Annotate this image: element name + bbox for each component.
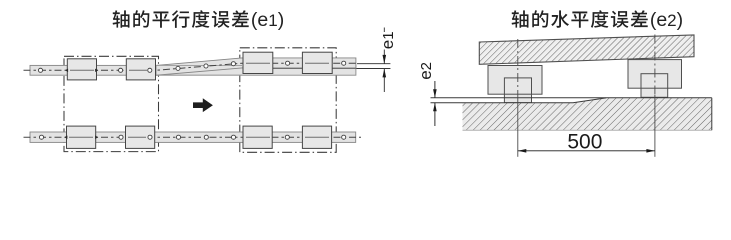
svg-text:(e: (e bbox=[251, 9, 268, 31]
bearing block bottom B4b bbox=[302, 126, 331, 148]
title: shaft parallelism error (e1) bbox=[113, 9, 285, 31]
dimension e2: label bbox=[416, 62, 435, 80]
shaft screw holes (top shaft) bbox=[38, 61, 345, 72]
mounting plate (hatched, tilted) bbox=[479, 35, 694, 64]
ghost band edges crossing tilted band bbox=[156, 65, 242, 75]
block B1b edge arrows bbox=[64, 136, 98, 139]
shaft support left (wide + clamp) bbox=[488, 66, 542, 103]
block B1 edge arrows bbox=[65, 69, 98, 72]
svg-text:e1: e1 bbox=[378, 31, 397, 49]
block bottom centerline segments bbox=[69, 136, 329, 138]
bearing block top B3 bbox=[243, 52, 273, 73]
svg-text:500: 500 bbox=[567, 130, 602, 153]
bottom shaft centerline bbox=[24, 136, 362, 138]
dimension e1: arrowheads bbox=[383, 55, 387, 78]
svg-text:2: 2 bbox=[667, 11, 676, 30]
ground bottom edge bbox=[463, 129, 712, 131]
shaft screw holes (bottom shaft) bbox=[39, 135, 345, 139]
support centerline right bbox=[654, 35, 656, 96]
ground surface lines bbox=[431, 98, 712, 130]
bearing block top B1 bbox=[67, 59, 96, 80]
top shaft: tilted and right segment bbox=[156, 58, 356, 75]
dimension e1: label bbox=[378, 31, 397, 49]
title: shaft levelness error (e2) bbox=[512, 9, 684, 31]
dimension e1: extension lines bbox=[357, 28, 391, 93]
bearing block top B4 bbox=[302, 52, 332, 73]
svg-text:e2: e2 bbox=[416, 62, 435, 80]
support centerline left bbox=[517, 39, 519, 99]
bearing block bottom B3b bbox=[243, 126, 272, 148]
motion arrow (black) bbox=[193, 98, 213, 112]
svg-text:(e: (e bbox=[650, 9, 667, 31]
original-axis reference line (e1 lower) bbox=[244, 68, 390, 70]
bottom shaft bbox=[30, 132, 356, 142]
top shaft centerline (dash-dot) bbox=[24, 63, 356, 70]
bearing block top B2 bbox=[126, 59, 155, 80]
top shaft: straight left segment bbox=[30, 65, 158, 75]
ground (hatched) bbox=[463, 98, 712, 130]
carriage outline right (dash-dot rect) bbox=[240, 48, 336, 153]
dimension e2 bbox=[434, 81, 436, 126]
svg-text:): ) bbox=[677, 9, 684, 31]
top shaft: original-position ghost band bbox=[156, 65, 356, 75]
bearing block bottom B1b bbox=[67, 126, 96, 148]
bearing block bottom B2b bbox=[126, 126, 155, 148]
svg-text:): ) bbox=[278, 9, 285, 31]
shaft support right (wide + clamp) bbox=[628, 60, 682, 98]
block centerline segments bbox=[70, 63, 329, 70]
svg-text:1: 1 bbox=[268, 11, 277, 30]
dimension 500 bbox=[518, 150, 655, 152]
carriage outline left (dash-dot rect) bbox=[64, 56, 159, 151]
